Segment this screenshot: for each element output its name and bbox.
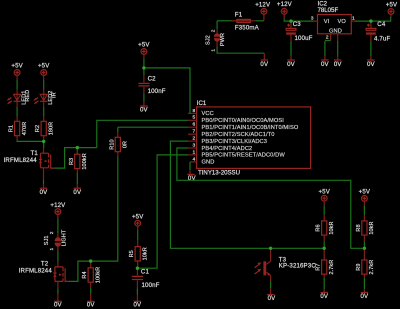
svg-text:C4: C4 (377, 21, 386, 28)
svg-text:10kR: 10kR (329, 221, 335, 234)
resistor R3 100kR (69, 148, 88, 173)
svg-text:0V: 0V (367, 61, 376, 68)
svg-text:R9: R9 (356, 263, 362, 270)
ground 0V (R4) (87, 294, 96, 309)
wire (43, 141, 45, 148)
ground 0V (T3) (267, 288, 276, 302)
supply +5V (R6) (318, 188, 330, 205)
svg-text:LIGHT: LIGHT (62, 229, 68, 246)
svg-text:0V: 0V (87, 302, 96, 309)
wire IC2 out to +5V (355, 17, 391, 22)
svg-text:GND: GND (202, 160, 215, 166)
supply +5V (LED1) (11, 63, 23, 80)
svg-text:PB4/PCINT4/ADC2: PB4/PCINT4/ADC2 (202, 146, 253, 152)
wire (370, 41, 372, 55)
wire VCC net to IC1 pin 8 (144, 68, 190, 114)
wire T1 gate to R3/pin5 net (55, 120, 189, 168)
wire (136, 288, 138, 294)
svg-text:VI: VI (324, 19, 330, 25)
svg-text:7: 7 (192, 129, 195, 135)
wire (143, 68, 145, 75)
svg-text:2.7kR: 2.7kR (329, 260, 335, 275)
resistor R1 470R (9, 117, 28, 141)
svg-text:0V: 0V (73, 189, 82, 196)
svg-text:0V: 0V (260, 61, 269, 68)
ground 0V (C2) (140, 102, 149, 114)
capacitor C1 100nF (132, 268, 160, 289)
svg-text:F1: F1 (235, 11, 243, 18)
resistor R2 180R (35, 117, 54, 141)
svg-text:2.7kR: 2.7kR (369, 260, 375, 275)
pin 4 GND (190, 156, 214, 165)
ground 0V (R7) (320, 289, 329, 300)
ground 0V (C3) (287, 56, 296, 68)
svg-text:0V: 0V (334, 61, 343, 68)
junction (369, 19, 372, 22)
svg-text:C1: C1 (141, 269, 150, 276)
wire (17, 140, 44, 141)
wire (323, 241, 325, 248)
svg-text:IRFML8244: IRFML8244 (4, 157, 38, 164)
svg-text:4: 4 (192, 156, 195, 162)
svg-text:+5V: +5V (38, 63, 50, 70)
svg-text:IR: IR (52, 92, 58, 98)
junction (89, 259, 92, 262)
wire (43, 79, 45, 90)
svg-text:+12V: +12V (50, 202, 66, 209)
ground 0V (R3) (73, 184, 82, 196)
wire (284, 18, 314, 21)
svg-text:+5V: +5V (359, 189, 371, 196)
capacitor C4 4.7uF (366, 21, 390, 43)
svg-text:R1: R1 (9, 125, 15, 132)
svg-text:PWR: PWR (220, 33, 226, 46)
svg-text:78L05F: 78L05F (318, 7, 339, 14)
svg-text:SJ2: SJ2 (206, 35, 212, 45)
svg-text:IC1: IC1 (197, 100, 207, 107)
svg-text:100kR: 100kR (95, 267, 101, 283)
ground 0V (C4) (367, 56, 376, 68)
wire (270, 281, 272, 288)
svg-text:8: 8 (192, 108, 195, 114)
svg-text:+5V: +5V (318, 188, 330, 195)
svg-text:2: 2 (210, 29, 216, 32)
resistor R4 100kR (82, 261, 101, 288)
svg-text:0V: 0V (40, 189, 49, 196)
wire (363, 206, 365, 215)
svg-text:1: 1 (352, 15, 355, 21)
svg-text:F350mA: F350mA (235, 24, 260, 31)
pin 1 PB5 (188, 149, 285, 158)
supply +12V (IC2 in) (277, 1, 293, 18)
junction (289, 19, 292, 22)
ground 0V (IC2 gnd b) (334, 56, 343, 68)
supply +5V (C2) (138, 42, 150, 59)
svg-text:0V: 0V (321, 61, 330, 68)
svg-text:10kR: 10kR (142, 247, 148, 260)
wire (43, 180, 45, 184)
pin 8 VCC (188, 108, 214, 117)
ground 0V (T2) (54, 294, 63, 309)
transistor T1 IRFML8244 (4, 148, 55, 180)
junction (269, 247, 272, 250)
svg-text:3: 3 (192, 142, 195, 148)
svg-text:0V: 0V (134, 302, 143, 309)
svg-text:R10: R10 (109, 139, 115, 149)
pin 2 PB3 (188, 136, 267, 145)
svg-text:1: 1 (210, 49, 216, 52)
supply +5V (R8) (359, 189, 371, 208)
svg-text:10kR: 10kR (369, 221, 375, 234)
svg-text:R4: R4 (82, 271, 88, 278)
wire (363, 241, 365, 248)
svg-text:2: 2 (326, 35, 329, 41)
svg-text:VO: VO (338, 19, 347, 25)
svg-text:180R: 180R (48, 122, 54, 136)
svg-text:PB3/PCINT3/CLKI/ADC3: PB3/PCINT3/CLKI/ADC3 (202, 139, 268, 145)
phototransistor T3 KP-3216P3C (255, 248, 317, 281)
resistor R5 10kR (129, 241, 148, 268)
svg-text:TINY13-20SSU: TINY13-20SSU (198, 169, 240, 176)
svg-text:0V: 0V (268, 295, 277, 302)
svg-text:VCC: VCC (202, 111, 214, 117)
svg-text:0V: 0V (361, 293, 370, 300)
svg-text:+5V: +5V (11, 63, 23, 70)
svg-text:6: 6 (192, 122, 195, 128)
svg-text:0V: 0V (140, 107, 149, 114)
supply +5V (LED2) (38, 63, 50, 80)
wire IC1 pin2 net to T3/R6 (170, 141, 324, 248)
svg-text:SJ1: SJ1 (44, 235, 50, 245)
svg-text:+5V: +5V (138, 42, 150, 49)
svg-text:3: 3 (311, 15, 314, 21)
ground 0V (T1) (40, 184, 49, 196)
wire (323, 278, 325, 289)
wire (16, 107, 18, 117)
resistor R8 10kR (356, 215, 375, 242)
wire (143, 94, 145, 102)
svg-text:5: 5 (192, 115, 195, 121)
wire (90, 288, 92, 293)
wire (143, 58, 145, 68)
svg-text:R2: R2 (35, 125, 41, 132)
resistor R6 10kR (316, 215, 335, 242)
wire IC1 pin1 net to C1/R5 (137, 155, 188, 268)
supply +12V (SJ1) (50, 202, 66, 219)
supply +5V (R5) (132, 214, 144, 231)
resistor R10 0R (109, 127, 188, 156)
svg-text:C2: C2 (148, 76, 157, 83)
wire (337, 41, 339, 56)
supply +12V (F1) (255, 1, 271, 21)
svg-text:0V: 0V (54, 302, 63, 309)
LED LED2 IR (35, 90, 58, 107)
wire R10 to T2 gate net (69, 157, 118, 282)
fuse F1 F350mA (217, 11, 260, 31)
svg-text:470R: 470R (22, 122, 28, 136)
svg-text:PB2/PCINT2/SCK/ADC1/T0: PB2/PCINT2/SCK/ADC1/T0 (202, 132, 275, 138)
jumper SJ1 LIGHT (44, 229, 68, 250)
svg-text:2: 2 (49, 231, 55, 234)
resistor R9 2.7kR (356, 248, 375, 278)
svg-text:IRFML8244: IRFML8244 (19, 267, 53, 274)
svg-text:100uF: 100uF (295, 35, 313, 42)
svg-text:100nF: 100nF (148, 88, 166, 95)
svg-text:+12V: +12V (277, 1, 293, 8)
svg-text:PB5/PCINT5/RESET/ADC0/DW: PB5/PCINT5/RESET/ADC0/DW (202, 153, 286, 159)
wire (290, 41, 292, 55)
wire (363, 278, 365, 289)
svg-text:0R: 0R (123, 141, 129, 148)
wire (323, 206, 325, 215)
pin 6 PB1 (188, 122, 299, 131)
svg-text:+12V: +12V (255, 1, 271, 8)
junction (76, 146, 79, 149)
junction (42, 140, 45, 143)
svg-text:C3: C3 (293, 21, 302, 28)
svg-text:R3: R3 (69, 158, 75, 165)
ground 0V (SJ2) (260, 53, 269, 68)
wire (57, 251, 59, 262)
svg-text:RED: RED (25, 90, 31, 102)
IC op U1: IC1 TINY13-20SSU (197, 100, 311, 176)
wire (324, 41, 326, 56)
junction (363, 247, 366, 250)
wire (217, 47, 264, 54)
wire (57, 219, 59, 234)
svg-text:PB1/PCINT1/AIN1/OC0B/INT0/MISO: PB1/PCINT1/AIN1/OC0B/INT0/MISO (202, 125, 299, 131)
jumper SJ2 PWR (206, 21, 227, 52)
svg-text:1: 1 (49, 247, 55, 250)
pin 3 PB4 (188, 142, 252, 151)
capacitor C2 100nF (138, 75, 165, 95)
svg-text:100kR: 100kR (82, 153, 88, 169)
wire (256, 20, 264, 22)
svg-text:4.7uF: 4.7uF (374, 35, 390, 42)
svg-text:R5: R5 (129, 250, 135, 257)
wire (189, 162, 191, 170)
svg-text:100nF: 100nF (142, 282, 160, 289)
svg-text:PB0/PCINT0/AIN0/OC0A/MOSI: PB0/PCINT0/AIN0/OC0A/MOSI (202, 118, 285, 124)
wire (76, 173, 78, 184)
pin 7 PB2 (188, 129, 275, 138)
ground 0V (R9) (361, 289, 370, 300)
ground 0V (IC1 GND) (187, 170, 196, 182)
wire (137, 230, 139, 241)
svg-text:R6: R6 (316, 224, 322, 231)
svg-text:1: 1 (192, 149, 195, 155)
junction (323, 247, 326, 250)
wire (16, 79, 18, 90)
supply +5V (IC2 out) (386, 1, 398, 16)
svg-text:GND: GND (329, 28, 342, 34)
svg-text:0V: 0V (320, 293, 329, 300)
junction (142, 66, 145, 69)
svg-text:+5V: +5V (132, 214, 144, 221)
svg-text:R8: R8 (356, 224, 362, 231)
svg-text:R7: R7 (316, 263, 322, 270)
junction (136, 267, 139, 270)
ground 0V (C1) (134, 295, 143, 309)
transistor T2 IRFML8244 (19, 261, 69, 294)
LED LED1 RED (8, 90, 31, 107)
wire (43, 107, 45, 117)
IC regulator IC2 78L05F (311, 1, 355, 41)
pin 5 PB0 (188, 115, 284, 124)
wire IC1 pin3 net to R8/R9 (177, 148, 365, 248)
svg-text:2: 2 (192, 136, 195, 142)
svg-text:0V: 0V (188, 175, 197, 182)
svg-text:+5V: +5V (386, 1, 398, 8)
svg-text:0V: 0V (287, 61, 296, 68)
ground 0V (IC2 gnd a) (321, 56, 330, 68)
svg-text:KP-3216P3C: KP-3216P3C (279, 262, 317, 269)
resistor R7 2.7kR (316, 248, 335, 278)
capacitor C3 100uF (286, 21, 312, 42)
